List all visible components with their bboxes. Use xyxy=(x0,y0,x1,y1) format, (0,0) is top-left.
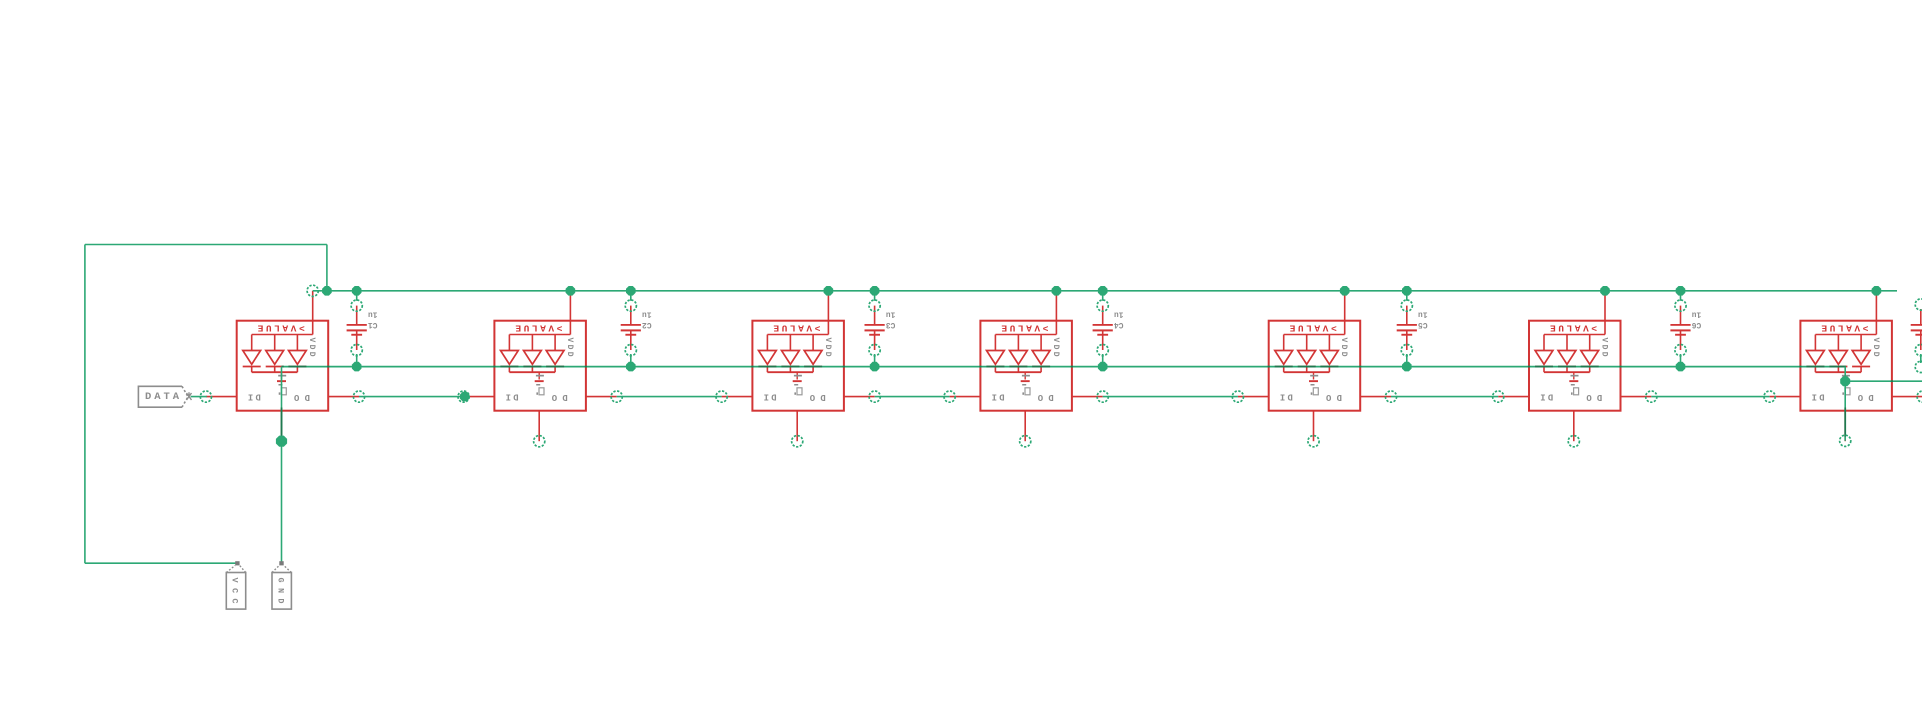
svg-text:1u: 1u xyxy=(1418,309,1428,318)
svg-text:C4: C4 xyxy=(1114,320,1124,329)
svg-text:GND: GND xyxy=(275,578,285,604)
svg-text:1u: 1u xyxy=(1692,309,1702,318)
svg-text:1u: 1u xyxy=(642,309,652,318)
svg-text:C1: C1 xyxy=(368,320,378,329)
svg-text:C5: C5 xyxy=(1418,320,1428,329)
svg-text:C3: C3 xyxy=(886,320,896,329)
svg-text:C6: C6 xyxy=(1692,320,1702,329)
svg-text:1u: 1u xyxy=(1114,309,1124,318)
svg-text:1u: 1u xyxy=(886,309,896,318)
svg-text:VCC: VCC xyxy=(230,578,240,604)
svg-text:C2: C2 xyxy=(642,320,652,329)
svg-text:1u: 1u xyxy=(368,309,378,318)
